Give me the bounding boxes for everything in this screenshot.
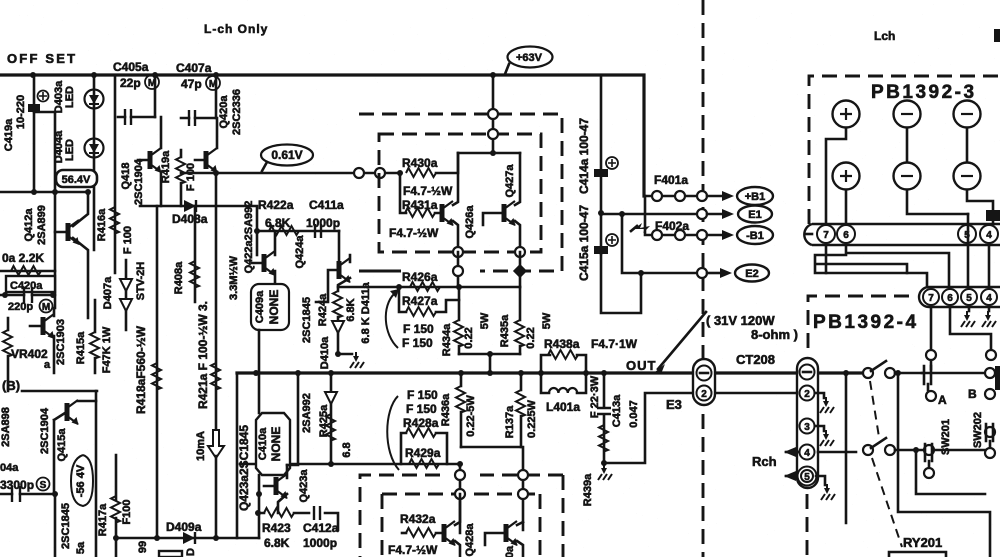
svg-text:VR402: VR402 xyxy=(11,347,48,361)
svg-text:C407a: C407a xyxy=(176,61,212,75)
svg-text:F 100: F 100 xyxy=(185,163,197,191)
svg-text:6.8 K D411a: 6.8 K D411a xyxy=(360,282,372,344)
pin 7 xyxy=(817,225,835,243)
component box bottom xyxy=(159,551,182,557)
solder pad xyxy=(986,210,1000,221)
svg-text:a: a xyxy=(44,359,51,371)
svg-text:+B1: +B1 xyxy=(745,191,766,203)
svg-text:R137a: R137a xyxy=(504,405,516,438)
-56.4V measurement blob xyxy=(71,455,93,506)
+63V oval xyxy=(505,47,553,75)
wire - row2b jog xyxy=(967,190,993,224)
stub pin7 lower xyxy=(930,307,933,349)
wire R418a column xyxy=(156,206,159,538)
svg-text:2SA992: 2SA992 xyxy=(301,393,313,433)
svg-text:+63V: +63V xyxy=(516,52,543,64)
svg-text:0.047: 0.047 xyxy=(628,400,640,428)
terminal - row1b xyxy=(954,101,981,128)
switch SW201 xyxy=(924,445,934,455)
svg-text:R430a: R430a xyxy=(402,156,438,170)
open circles stage bottom xyxy=(453,247,463,257)
svg-text:6.8: 6.8 xyxy=(341,442,353,457)
svg-text:D: D xyxy=(185,548,197,556)
wire relay feed column xyxy=(845,373,848,523)
svg-text:-B1: -B1 xyxy=(746,230,764,242)
transistor Q423a xyxy=(276,474,288,499)
svg-text:LED: LED xyxy=(64,139,76,161)
svg-text:Q420a: Q420a xyxy=(218,95,230,129)
svg-text:R427a: R427a xyxy=(402,294,438,308)
wire R421a column xyxy=(215,173,218,430)
svg-text:( 31V 120W: ( 31V 120W xyxy=(706,313,775,328)
svg-text:4: 4 xyxy=(986,293,992,304)
pin 4 lower xyxy=(981,289,997,305)
resistor R427a parallel xyxy=(399,287,459,312)
svg-text:Lch: Lch xyxy=(874,29,895,43)
wire collector column from rail xyxy=(492,75,495,153)
svg-text:R417a: R417a xyxy=(97,503,109,536)
svg-text:STV-2H: STV-2H xyxy=(135,262,147,301)
wire R426a row xyxy=(338,286,520,289)
svg-text:C405a: C405a xyxy=(113,60,149,74)
dashed box PB1392-3 xyxy=(809,76,1000,224)
svg-text:0a: 0a xyxy=(504,545,516,557)
ground pin5 xyxy=(968,307,971,311)
wire pin4 to lower connector xyxy=(988,245,991,287)
capacitor C415a xyxy=(594,234,618,254)
transistor 2SC1903 xyxy=(43,314,55,339)
ground pin2 Rch xyxy=(815,393,824,398)
terminal E2 xyxy=(735,265,769,282)
svg-text:C413a: C413a xyxy=(611,394,623,427)
resistor R426a xyxy=(401,269,445,284)
svg-text:E1: E1 xyxy=(748,209,761,221)
plus mark xyxy=(38,91,49,102)
transistor Q409a xyxy=(256,231,259,255)
transistor Q427a xyxy=(504,201,516,226)
C409a NONE box xyxy=(251,284,289,330)
svg-text:R423: R423 xyxy=(262,521,291,535)
svg-text:C411a: C411a xyxy=(309,198,344,212)
svg-text:56.4V: 56.4V xyxy=(62,174,91,186)
resistor R137a xyxy=(520,373,523,447)
svg-text:R419a: R419a xyxy=(160,150,172,183)
terminal E1 xyxy=(738,206,772,223)
connector CT208 Rch xyxy=(797,358,818,488)
main output line xyxy=(237,371,867,374)
svg-text:R439a: R439a xyxy=(582,473,594,506)
diode D411a xyxy=(337,317,340,354)
svg-text:F 150: F 150 xyxy=(406,402,437,416)
svg-text:3: 3 xyxy=(804,422,810,433)
resistor R415a xyxy=(94,300,97,373)
svg-text:R434a: R434a xyxy=(441,323,453,356)
svg-text:R425a: R425a xyxy=(318,404,330,437)
inner dashed box upper stage xyxy=(379,134,541,252)
svg-text:C414a 100-47: C414a 100-47 xyxy=(577,118,591,194)
svg-text:3300p: 3300p xyxy=(0,478,34,492)
svg-text:R416a: R416a xyxy=(96,208,108,241)
svg-text:CT208: CT208 xyxy=(736,352,775,367)
svg-text:10mA: 10mA xyxy=(195,431,207,461)
resistor R434a xyxy=(458,287,461,354)
resistor R416a xyxy=(110,207,119,234)
node D409a row junctions xyxy=(154,535,160,541)
svg-text:RY201: RY201 xyxy=(903,535,942,550)
svg-text:NONE: NONE xyxy=(267,290,281,325)
svg-text:R418aF560-½W: R418aF560-½W xyxy=(134,325,148,414)
lower outer dashed box xyxy=(360,475,563,557)
circles on lower dashed crossings xyxy=(459,464,462,533)
svg-text:5W: 5W xyxy=(479,312,491,329)
svg-text:47p: 47p xyxy=(181,77,202,91)
svg-text:Q415a: Q415a xyxy=(56,428,68,462)
svg-text:F 22·3W: F 22·3W xyxy=(589,375,601,418)
svg-text:Q426a: Q426a xyxy=(464,205,476,239)
C410a NONE box xyxy=(256,413,290,475)
svg-text:7: 7 xyxy=(928,293,934,304)
svg-text:2SC1845: 2SC1845 xyxy=(60,503,72,549)
terminal - row2 xyxy=(894,163,921,190)
svg-text:22p: 22p xyxy=(120,76,141,90)
ground pin4 xyxy=(988,307,991,311)
svg-text:F4.7·1W: F4.7·1W xyxy=(591,337,638,351)
capacitor C420a box xyxy=(6,276,55,292)
svg-text:PB1392-4: PB1392-4 xyxy=(813,312,919,333)
+63V supply rail xyxy=(0,75,644,196)
svg-text:D407a: D407a xyxy=(102,276,114,309)
svg-text:10-220: 10-220 xyxy=(15,95,27,129)
ground pin3 Rch xyxy=(815,426,824,431)
emitter junction bar xyxy=(459,354,520,373)
svg-text:E3: E3 xyxy=(666,397,682,412)
wire LED column xyxy=(93,75,96,250)
svg-text:L-ch Only: L-ch Only xyxy=(204,22,268,36)
svg-text:6: 6 xyxy=(947,293,953,304)
separator dashed line xyxy=(702,0,705,557)
capacitor C413a xyxy=(601,370,607,376)
arrow into pin5 xyxy=(786,475,797,478)
capacitor C414a column xyxy=(600,75,603,254)
transistor Q429a xyxy=(506,521,518,546)
terminal B right xyxy=(985,368,995,378)
svg-text:R429a: R429a xyxy=(405,446,441,460)
svg-text:C412a: C412a xyxy=(303,521,339,535)
transistor Q415a 2SC1904 xyxy=(67,400,79,425)
svg-text:8-ohm ): 8-ohm ) xyxy=(751,327,798,342)
svg-text:4: 4 xyxy=(804,448,810,459)
svg-text:R408a: R408a xyxy=(173,261,185,294)
svg-text:R432a: R432a xyxy=(400,512,436,526)
svg-text:220p: 220p xyxy=(8,301,33,313)
wire lower bar xyxy=(461,447,523,530)
resistor R424a xyxy=(333,291,342,318)
wire row2 from Rch pin4 xyxy=(818,451,856,454)
svg-text:0a 2.2K: 0a 2.2K xyxy=(2,251,44,265)
svg-text:5: 5 xyxy=(966,293,972,304)
wire D408a row xyxy=(140,206,257,231)
svg-text:Q418: Q418 xyxy=(120,163,132,190)
svg-text:R436a: R436a xyxy=(440,393,452,426)
node Q423a base junction xyxy=(256,491,262,497)
svg-text:C415a 100-47: C415a 100-47 xyxy=(577,205,591,281)
svg-text:2SA899: 2SA899 xyxy=(36,205,48,245)
capacitor C419a xyxy=(34,111,55,114)
wire - columns xyxy=(907,128,967,162)
inductor L401a with R438a xyxy=(538,370,544,376)
transistor Q412a xyxy=(68,220,80,245)
svg-text:F401a: F401a xyxy=(654,173,688,187)
svg-text:3.3M½W: 3.3M½W xyxy=(228,255,240,300)
ground pin5 Rch xyxy=(816,476,825,485)
svg-text:99: 99 xyxy=(137,541,149,553)
wire - row2 jog xyxy=(907,190,968,214)
terminal +B1 xyxy=(737,187,773,205)
wire right vertical xyxy=(95,391,98,557)
svg-text:0.61V: 0.61V xyxy=(271,148,302,162)
resistor R428a parallel box xyxy=(401,433,447,464)
curved arrow lower xyxy=(387,396,399,470)
resistor R419a xyxy=(180,150,183,206)
56.4V value box xyxy=(56,170,97,187)
svg-text:Q423a: Q423a xyxy=(298,469,310,503)
wire + row1 to pin7 xyxy=(826,128,846,224)
ground at C413a xyxy=(601,460,607,466)
svg-text:R435a: R435a xyxy=(499,314,511,347)
transistor Q428a xyxy=(444,521,456,546)
outer dashed box upper stage xyxy=(359,114,562,271)
wire fuse F402a row xyxy=(645,196,700,235)
wire B row xyxy=(22,390,97,393)
resistor R417a xyxy=(115,455,118,557)
svg-text:Q427a: Q427a xyxy=(504,164,516,198)
diode D409a xyxy=(183,532,195,544)
svg-text:B: B xyxy=(968,387,977,401)
svg-text:5W: 5W xyxy=(541,312,553,329)
potentiometer VR402 xyxy=(7,318,10,391)
svg-text:6.8K: 6.8K xyxy=(265,216,291,230)
svg-text:R421a F 100-½W 3.: R421a F 100-½W 3. xyxy=(196,301,210,409)
edge mark top right xyxy=(994,29,1000,42)
svg-text:F 150: F 150 xyxy=(403,322,434,336)
arrow into pin4 xyxy=(786,451,799,454)
svg-text:F 150: F 150 xyxy=(407,388,438,402)
open circles on 0.61V row at dashed box xyxy=(354,168,364,178)
pin 5 lower xyxy=(961,289,977,305)
diode D403a LED xyxy=(85,90,104,109)
wire pin7 to contact A xyxy=(930,361,933,369)
pin 6 lower xyxy=(942,289,958,305)
transistor Q426a xyxy=(442,201,454,226)
wire C410a box column xyxy=(258,373,261,413)
svg-text:2SC1904: 2SC1904 xyxy=(133,158,145,205)
wire D409a row xyxy=(116,537,259,540)
wire Q423a collector column xyxy=(287,373,298,465)
svg-text:L401a: L401a xyxy=(546,400,580,414)
wire pin5 to lower connector xyxy=(967,214,970,287)
connector E3 xyxy=(693,359,715,405)
svg-text:F100: F100 xyxy=(121,499,133,524)
wire relay route 1 xyxy=(898,373,990,557)
svg-text:A: A xyxy=(938,393,947,407)
svg-text:6: 6 xyxy=(843,230,849,241)
svg-text:R424a: R424a xyxy=(317,293,329,326)
svg-text:F47K 1W: F47K 1W xyxy=(101,326,113,373)
svg-text:0.225W: 0.225W xyxy=(526,399,538,438)
svg-text:5a: 5a xyxy=(75,541,87,554)
wire + row2 to pin6 xyxy=(845,190,848,225)
svg-text:SW202: SW202 xyxy=(972,412,984,448)
terminal - row1 xyxy=(894,101,921,128)
svg-text:R415a: R415a xyxy=(75,331,87,364)
diode D412a column xyxy=(330,373,333,464)
connector strip PB1392-3 xyxy=(804,224,1000,245)
10mA arrow xyxy=(208,430,224,458)
wire E3 row xyxy=(604,393,798,463)
svg-text:2SC1904: 2SC1904 xyxy=(39,407,51,454)
capacitor C412a xyxy=(314,506,320,520)
wire left edge to LED column xyxy=(0,75,88,192)
svg-text:2SC2336: 2SC2336 xyxy=(231,89,243,135)
svg-text:Q424a: Q424a xyxy=(294,235,306,269)
pin 4 xyxy=(980,225,998,243)
dashed line bottom right of Rch connector xyxy=(806,494,809,557)
wire 0.61V row xyxy=(181,172,400,175)
svg-text:R438a: R438a xyxy=(544,337,580,351)
svg-text:PB1392-3: PB1392-3 xyxy=(871,82,977,103)
svg-text:0.22-5W: 0.22-5W xyxy=(465,395,477,437)
svg-text:Q412a: Q412a xyxy=(23,208,35,242)
svg-text:NONE: NONE xyxy=(269,427,283,462)
dashed box PB1392-4 xyxy=(808,296,916,348)
svg-text:C409a: C409a xyxy=(254,290,266,323)
terminal -B1 xyxy=(737,226,773,244)
svg-text:F 150: F 150 xyxy=(402,336,433,350)
0.61V oval xyxy=(261,145,313,172)
svg-text:F4.7-½W: F4.7-½W xyxy=(388,543,438,557)
capacitor C405a xyxy=(118,116,155,119)
svg-text:1000p: 1000p xyxy=(306,216,340,230)
diode D408a xyxy=(184,200,196,212)
wire pin7 to lower connector xyxy=(826,245,927,287)
svg-text:D410a: D410a xyxy=(319,336,331,369)
transistor Q418 xyxy=(150,148,162,173)
node on rail xyxy=(30,72,36,78)
wire relay route 2 xyxy=(916,450,985,494)
capacitor 220p xyxy=(0,294,55,297)
svg-text:04a: 04a xyxy=(0,462,19,474)
pin 6 xyxy=(837,225,855,243)
svg-text:2: 2 xyxy=(701,389,707,400)
curved arrow upper xyxy=(386,294,398,348)
svg-text:1000p: 1000p xyxy=(303,536,337,550)
svg-text:OUT: OUT xyxy=(626,358,656,373)
wire R422a C411a row xyxy=(257,230,339,233)
svg-text:E2: E2 xyxy=(745,268,758,280)
svg-text:2SC1903: 2SC1903 xyxy=(55,319,67,365)
svg-text:D409a: D409a xyxy=(166,520,202,534)
diode D404a LED xyxy=(85,139,104,158)
terminal - row2b xyxy=(954,163,981,190)
resistor R436a xyxy=(460,373,463,447)
svg-text:Q428a: Q428a xyxy=(464,523,476,557)
svg-text:4: 4 xyxy=(986,230,992,241)
svg-text:5: 5 xyxy=(804,472,810,483)
capacitor C407a xyxy=(181,117,216,120)
terminal + row2 xyxy=(833,163,860,190)
resistor R408a xyxy=(194,206,197,302)
pointer line to 31V note xyxy=(658,312,706,369)
pin 5 xyxy=(958,225,976,243)
svg-text:0.22: 0.22 xyxy=(463,327,475,348)
resistor R435a xyxy=(519,287,522,354)
transistor Q420a xyxy=(206,148,218,173)
wire pin6 jogs xyxy=(846,245,949,287)
switch linkage dashed xyxy=(870,381,902,547)
svg-text:S: S xyxy=(40,480,47,491)
resistor R439a xyxy=(599,425,608,452)
svg-text:LED: LED xyxy=(64,86,76,108)
svg-text:7: 7 xyxy=(823,230,829,241)
svg-text:0.22: 0.22 xyxy=(525,327,537,348)
svg-text:Q423a2SC1845: Q423a2SC1845 xyxy=(237,425,251,511)
svg-text:Rch: Rch xyxy=(752,454,777,469)
svg-text:2SC1845: 2SC1845 xyxy=(301,297,313,343)
ground at D411a node xyxy=(335,351,341,357)
contact A xyxy=(922,366,985,390)
svg-text:OFF SET: OFF SET xyxy=(7,51,77,66)
svg-text:M: M xyxy=(42,302,50,313)
wire R421a column lower xyxy=(215,456,218,538)
stub pin6 lower xyxy=(950,307,991,349)
svg-text:-56 4V: -56 4V xyxy=(75,464,87,497)
svg-text:F4.7-½W: F4.7-½W xyxy=(403,184,453,198)
svg-text:6.8K: 6.8K xyxy=(345,298,357,321)
svg-text:F 100: F 100 xyxy=(122,226,134,254)
transistor Q424a xyxy=(338,231,341,262)
wire Q412a base column xyxy=(54,112,57,308)
svg-text:(B): (B) xyxy=(2,378,20,393)
resistor R423 xyxy=(257,513,338,530)
svg-text:C410a: C410a xyxy=(257,427,269,460)
svg-text:C420a: C420a xyxy=(10,280,43,292)
svg-text:F4.7-½W: F4.7-½W xyxy=(389,226,439,240)
diode D407a STV-2H xyxy=(125,260,128,330)
svg-text:R422a: R422a xyxy=(258,198,294,212)
wire E1 row xyxy=(601,213,698,216)
wire C405a column xyxy=(154,75,157,117)
svg-text:2SA898: 2SA898 xyxy=(0,407,12,447)
wire E2 row xyxy=(601,214,698,313)
node junction dots left row xyxy=(31,189,37,195)
svg-text:C419a: C419a xyxy=(3,118,15,151)
terminal + row1 xyxy=(833,101,860,128)
svg-text:D408a: D408a xyxy=(172,212,208,226)
svg-text:Q422a2SA992: Q422a2SA992 xyxy=(243,201,255,274)
lower inner dashed box xyxy=(382,494,540,557)
svg-text:6.8K: 6.8K xyxy=(264,536,290,550)
switch SW202 xyxy=(934,449,985,452)
connector strip PB1392-4 xyxy=(919,287,1000,307)
wire fuse F401a row xyxy=(645,195,700,198)
svg-text:2: 2 xyxy=(804,389,810,400)
pin 7 lower xyxy=(923,289,939,305)
wire R416a column xyxy=(114,75,117,273)
switch row1 xyxy=(863,368,873,378)
wire bottom left column xyxy=(54,494,57,557)
